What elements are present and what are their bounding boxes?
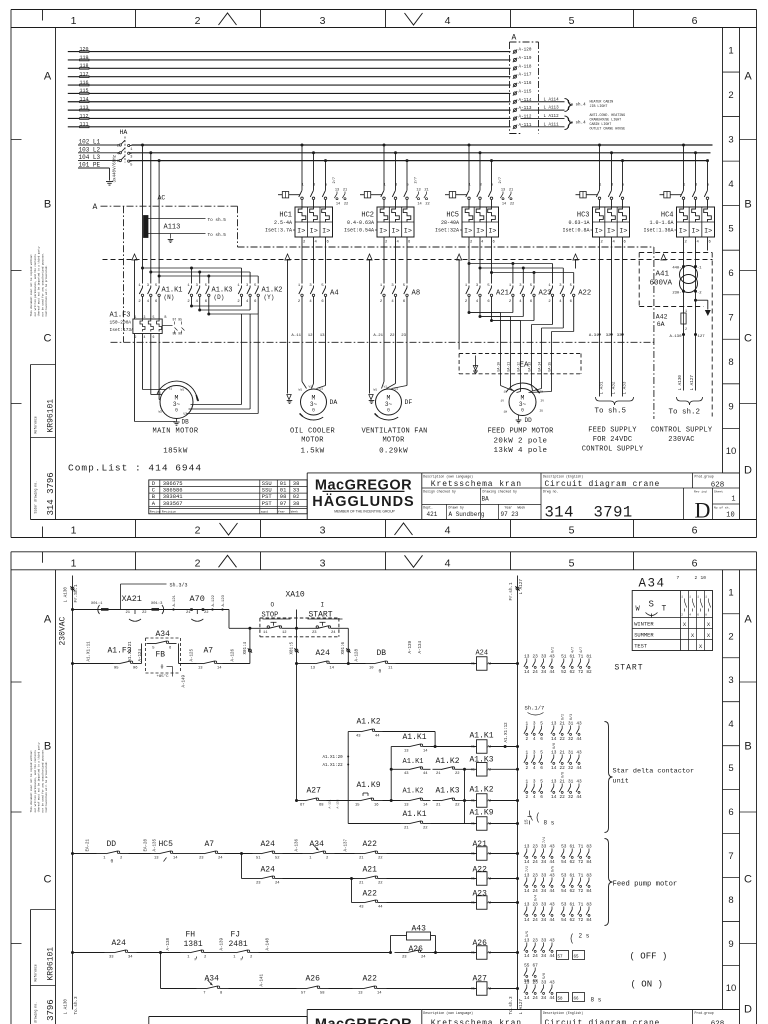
svg-text:314 3796: 314 3796 xyxy=(46,999,56,1024)
svg-text:14: 14 xyxy=(524,889,530,894)
svg-text:14: 14 xyxy=(524,996,530,1001)
bus L2 wire xyxy=(130,152,711,154)
svg-text:Iset:0.8A: Iset:0.8A xyxy=(562,228,589,234)
svg-text:To sh.4: To sh.4 xyxy=(568,121,586,126)
svg-text:I>: I> xyxy=(619,228,627,236)
revision table xyxy=(149,480,307,514)
svg-text:Kretsschema kran: Kretsschema kran xyxy=(431,480,522,489)
svg-text:I>: I> xyxy=(464,228,472,236)
svg-text:23: 23 xyxy=(256,881,261,885)
svg-text:C: C xyxy=(44,333,52,345)
svg-text:127: 127 xyxy=(698,335,706,339)
svg-text:Year: Year xyxy=(278,510,285,513)
svg-text:54: 54 xyxy=(561,918,567,923)
svg-text:1381: 1381 xyxy=(184,940,203,949)
svg-text:(D): (D) xyxy=(214,294,225,301)
svg-text:24: 24 xyxy=(331,631,336,635)
svg-text:Feed pump motor: Feed pump motor xyxy=(613,881,678,889)
svg-text:21: 21 xyxy=(359,881,364,885)
svg-text:A-116: A-116 xyxy=(519,81,532,86)
svg-text:Reference: Reference xyxy=(34,964,38,981)
svg-text:Description (own Language): Description (own Language) xyxy=(423,1011,473,1015)
svg-text:thereof must not be imparted t: thereof must not be imparted to a third … xyxy=(37,742,41,812)
feed supply wires to sh.5 xyxy=(599,237,601,397)
svg-text:U1: U1 xyxy=(320,388,324,391)
svg-text:24: 24 xyxy=(533,860,539,865)
svg-text:Circuit diagram crane: Circuit diagram crane xyxy=(545,480,661,489)
svg-text:MOTOR: MOTOR xyxy=(382,437,405,445)
PE wire to DD xyxy=(457,254,462,260)
svg-text:6: 6 xyxy=(728,807,733,818)
svg-text:A1.K2: A1.K2 xyxy=(436,757,460,766)
control supply to sh.2 xyxy=(677,397,703,405)
svg-text:A-136: A-136 xyxy=(296,838,300,851)
svg-text:TEST: TEST xyxy=(634,644,648,650)
svg-text:appd: appd xyxy=(261,509,268,513)
svg-text:6/2: 6/2 xyxy=(550,647,555,653)
svg-text:Contravention will be prosecut: Contravention will be prosecuted. xyxy=(44,265,48,316)
svg-text:7/4: 7/4 xyxy=(542,837,547,843)
svg-text:10: 10 xyxy=(726,512,734,520)
svg-text:34: 34 xyxy=(128,955,133,959)
svg-text:67: 67 xyxy=(300,803,305,807)
svg-text:3: 3 xyxy=(320,525,326,537)
svg-text:Rev ind: Rev ind xyxy=(694,490,707,494)
svg-text:57: 57 xyxy=(301,991,306,995)
svg-text:U2: U2 xyxy=(184,413,188,416)
svg-text:A34: A34 xyxy=(639,577,666,591)
svg-text:A-11: A-11 xyxy=(291,334,301,338)
svg-text:2W: 2W xyxy=(540,391,544,394)
svg-text:2: 2 xyxy=(195,15,201,27)
svg-text:12: 12 xyxy=(308,334,313,338)
svg-text:8/3: 8/3 xyxy=(569,714,574,720)
svg-text:15: 15 xyxy=(355,803,360,807)
svg-text:STOP: STOP xyxy=(262,612,279,620)
svg-text:72: 72 xyxy=(578,860,584,865)
svg-text:4: 4 xyxy=(144,335,146,339)
svg-text:A-31: A-31 xyxy=(589,334,599,338)
svg-text:4: 4 xyxy=(445,15,451,27)
svg-text:34: 34 xyxy=(541,954,547,959)
svg-text:24: 24 xyxy=(533,954,539,959)
svg-text:23: 23 xyxy=(402,955,407,959)
svg-text:22: 22 xyxy=(455,803,460,807)
svg-text:A: A xyxy=(744,614,752,626)
svg-text:A24: A24 xyxy=(316,649,331,658)
svg-text:MOTOR: MOTOR xyxy=(301,437,324,445)
svg-text:230VAC: 230VAC xyxy=(668,436,694,444)
svg-text:W1: W1 xyxy=(181,389,185,392)
svg-text:A-139: A-139 xyxy=(221,937,225,950)
svg-text:X01:1: X01:1 xyxy=(91,602,103,606)
wire risers xyxy=(249,628,251,663)
svg-text:A1: A1 xyxy=(471,745,475,749)
MacGREGOR HAGGLUNDS logo xyxy=(307,472,422,474)
svg-text:OIL COOLER: OIL COOLER xyxy=(290,428,336,436)
svg-text:14: 14 xyxy=(551,766,557,771)
svg-text:21: 21 xyxy=(126,611,131,615)
svg-text:I>: I> xyxy=(322,228,330,236)
svg-text:2: 2 xyxy=(728,90,733,101)
svg-text:7: 7 xyxy=(677,575,680,581)
title block text fields xyxy=(422,472,740,474)
wire rung R3 feed pump xyxy=(71,852,74,855)
svg-text:KR96101: KR96101 xyxy=(47,399,56,433)
svg-text:EA-14: EA-14 xyxy=(537,362,541,372)
svg-text:B: B xyxy=(44,199,51,211)
svg-text:A-139: A-139 xyxy=(409,640,413,653)
svg-text:1: 1 xyxy=(728,587,733,598)
svg-text:A4: A4 xyxy=(330,290,339,298)
svg-text:34: 34 xyxy=(541,889,547,894)
svg-text:34: 34 xyxy=(541,918,547,923)
svg-text:Prod.group: Prod.group xyxy=(695,1011,714,1015)
svg-text:82: 82 xyxy=(586,670,592,675)
svg-text:1: 1 xyxy=(728,45,733,56)
brace feed pump motor xyxy=(605,839,613,926)
title block text fields xyxy=(422,1009,740,1011)
svg-text:6/8: 6/8 xyxy=(552,743,557,749)
svg-text:22: 22 xyxy=(560,795,566,800)
svg-text:23: 23 xyxy=(312,631,317,635)
svg-text:101 PE: 101 PE xyxy=(79,162,101,169)
svg-text:8 s: 8 s xyxy=(544,820,555,827)
svg-text:A1: A1 xyxy=(471,951,475,955)
svg-text:This document must not be copi: This document must not be copied without xyxy=(29,750,33,813)
svg-text:EA-11: EA-11 xyxy=(506,362,510,372)
neutral branch arrow xyxy=(694,299,697,302)
svg-text:14: 14 xyxy=(173,856,178,860)
svg-text:A-124: A-124 xyxy=(139,648,143,661)
svg-text:MAIN MOTOR: MAIN MOTOR xyxy=(152,428,198,436)
svg-text:This document must not be copi: This document must not be copied without xyxy=(29,254,33,317)
svg-text:X01:5: X01:5 xyxy=(291,641,295,654)
svg-text:OUTLET CRANE HOUSE: OUTLET CRANE HOUSE xyxy=(590,127,626,131)
svg-text:44: 44 xyxy=(378,905,383,909)
main motor feeder wires xyxy=(141,144,144,147)
svg-text:B: B xyxy=(744,741,751,753)
svg-text:33: 33 xyxy=(109,955,114,959)
svg-text:Comp.List : 414 6944: Comp.List : 414 6944 xyxy=(68,463,202,474)
reference box KR96101 xyxy=(30,910,32,1024)
breaker HC5 xyxy=(468,144,471,147)
svg-text:To sh.5: To sh.5 xyxy=(208,233,227,238)
svg-text:14: 14 xyxy=(377,991,382,995)
svg-text:A22: A22 xyxy=(578,290,591,298)
svg-text:44: 44 xyxy=(549,996,555,1001)
svg-text:I>: I> xyxy=(704,228,712,236)
bus L3 wire xyxy=(130,160,709,162)
svg-text:B: B xyxy=(165,315,167,319)
svg-text:34: 34 xyxy=(541,996,547,1001)
svg-text:2: 2 xyxy=(695,575,698,581)
svg-text:A: A xyxy=(512,34,517,43)
svg-text:HC3: HC3 xyxy=(577,212,590,220)
svg-text:A1.K2: A1.K2 xyxy=(357,718,381,727)
svg-text:A: A xyxy=(93,203,98,212)
svg-text:No of sh.: No of sh. xyxy=(714,506,730,510)
svg-text:A1.X1:21: A1.X1:21 xyxy=(129,641,133,662)
svg-text:FEED SUPPLY: FEED SUPPLY xyxy=(588,427,637,435)
svg-text:21: 21 xyxy=(359,856,364,860)
svg-text:84: 84 xyxy=(586,918,592,923)
svg-text:52: 52 xyxy=(561,670,567,675)
MacGREGOR HAGGLUNDS logo xyxy=(307,1009,422,1011)
svg-text:Iset:0.54A: Iset:0.54A xyxy=(344,228,374,234)
svg-text:14: 14 xyxy=(524,860,530,865)
svg-text:θ: θ xyxy=(379,669,382,675)
svg-text:CONTROL SUPPLY: CONTROL SUPPLY xyxy=(651,427,713,435)
svg-text:thereof must not be imparted t: thereof must not be imparted to a third … xyxy=(37,246,41,316)
svg-text:44: 44 xyxy=(549,670,555,675)
svg-text:97 23: 97 23 xyxy=(501,511,519,518)
svg-text:230VAC: 230VAC xyxy=(59,616,68,645)
svg-text:97: 97 xyxy=(280,500,287,507)
svg-text:CABIN LIGHT: CABIN LIGHT xyxy=(590,122,612,126)
svg-text:A-118: A-118 xyxy=(519,64,532,69)
control supply dashed box xyxy=(639,252,712,254)
svg-text:A1: A1 xyxy=(471,768,475,772)
svg-text:421: 421 xyxy=(427,511,438,518)
svg-text:A: A xyxy=(744,71,752,83)
svg-text:A1.K9: A1.K9 xyxy=(470,809,494,818)
svg-text:DF: DF xyxy=(405,399,413,406)
svg-text:51: 51 xyxy=(256,856,261,860)
svg-text:2/7: 2/7 xyxy=(332,177,337,183)
svg-text:A1.X1:12: A1.X1:12 xyxy=(505,722,509,743)
svg-text:1V: 1V xyxy=(501,400,505,403)
svg-text:0.63-1A: 0.63-1A xyxy=(568,220,589,226)
border frame xyxy=(11,9,757,11)
svg-text:72: 72 xyxy=(578,918,584,923)
stop button xyxy=(229,627,259,629)
svg-text:6: 6 xyxy=(540,766,543,771)
to sh.4 outputs xyxy=(565,99,573,112)
svg-text:θ: θ xyxy=(312,408,315,414)
svg-text:24: 24 xyxy=(533,670,539,675)
svg-text:102 L1: 102 L1 xyxy=(79,139,101,146)
svg-text:Iset:32A: Iset:32A xyxy=(435,228,459,234)
svg-text:5: 5 xyxy=(728,223,733,234)
svg-text:Prod.group: Prod.group xyxy=(695,474,714,478)
star-delta branch wires xyxy=(143,267,242,269)
svg-text:A-117: A-117 xyxy=(519,73,532,78)
svg-text:65: 65 xyxy=(574,956,580,960)
svg-text:A-126: A-126 xyxy=(232,648,236,661)
svg-text:A1.K2: A1.K2 xyxy=(403,788,424,796)
svg-text:Kretsschema kran: Kretsschema kran xyxy=(431,1019,522,1024)
svg-text:A1: A1 xyxy=(471,987,475,991)
svg-text:44: 44 xyxy=(423,772,428,776)
svg-text:8: 8 xyxy=(728,895,733,906)
svg-text:Year: Year xyxy=(505,505,513,509)
svg-text:1: 1 xyxy=(71,15,77,27)
svg-text:44: 44 xyxy=(549,860,555,865)
svg-text:A-122: A-122 xyxy=(212,594,216,606)
svg-text:24: 24 xyxy=(533,918,539,923)
svg-text:14: 14 xyxy=(524,670,530,675)
svg-text:V1: V1 xyxy=(309,386,313,389)
svg-text:A24: A24 xyxy=(261,840,276,849)
svg-text:C: C xyxy=(44,874,52,886)
svg-text:A-137: A-137 xyxy=(345,838,349,851)
svg-text:12: 12 xyxy=(282,631,287,635)
svg-text:9: 9 xyxy=(728,402,733,413)
svg-text:A-140: A-140 xyxy=(267,937,271,950)
svg-text:14: 14 xyxy=(217,666,222,670)
svg-text:2.5-4A: 2.5-4A xyxy=(274,220,292,226)
svg-text:3~: 3~ xyxy=(173,401,181,408)
svg-text:58: 58 xyxy=(558,998,564,1002)
star point wires xyxy=(192,305,242,307)
svg-text:6/8: 6/8 xyxy=(561,772,566,778)
svg-text:Sheet: Sheet xyxy=(714,490,723,494)
svg-text:62: 62 xyxy=(570,889,576,894)
svg-text:θ: θ xyxy=(387,408,390,414)
svg-text:44: 44 xyxy=(549,918,555,923)
svg-text:10: 10 xyxy=(701,575,707,581)
svg-text:Drwg no.: Drwg no. xyxy=(543,490,558,494)
svg-text:9: 9 xyxy=(728,939,733,950)
svg-text:22: 22 xyxy=(390,334,395,338)
svg-text:XA21: XA21 xyxy=(122,594,142,604)
svg-text:2V: 2V xyxy=(541,400,545,403)
svg-text:38: 38 xyxy=(293,500,300,507)
svg-text:5: 5 xyxy=(569,525,575,537)
wire rung XA21-A70 xyxy=(71,608,74,611)
svg-text:44: 44 xyxy=(549,954,555,959)
svg-text:( ON ): ( ON ) xyxy=(631,980,663,990)
svg-text:B: B xyxy=(744,199,751,211)
svg-text:Drawing checked by: Drawing checked by xyxy=(483,490,518,494)
svg-text:4: 4 xyxy=(445,525,451,537)
svg-text:A34: A34 xyxy=(205,975,220,984)
breaker HC1 xyxy=(301,144,304,147)
svg-text:EA-13: EA-13 xyxy=(527,362,531,372)
svg-text:1.0-1.6A: 1.0-1.6A xyxy=(649,220,673,226)
svg-text:HC4: HC4 xyxy=(661,212,674,220)
contactor A4 contacts xyxy=(301,237,303,284)
svg-text:X01:3: X01:3 xyxy=(151,602,163,606)
contact A26 23-24 xyxy=(395,952,408,954)
svg-text:A1: A1 xyxy=(471,662,475,666)
breaker HC2 xyxy=(383,144,386,147)
svg-text:0.29kW: 0.29kW xyxy=(379,448,408,456)
svg-text:DA: DA xyxy=(330,399,338,406)
svg-text:24: 24 xyxy=(533,996,539,1001)
svg-text:62: 62 xyxy=(570,918,576,923)
svg-text:Circuit diagram crane: Circuit diagram crane xyxy=(545,1019,661,1024)
svg-text:54: 54 xyxy=(561,860,567,865)
svg-text:W2: W2 xyxy=(159,411,163,414)
svg-text:22: 22 xyxy=(378,881,383,885)
svg-text:A1.K1: A1.K1 xyxy=(403,733,427,742)
svg-text:A26: A26 xyxy=(306,975,321,984)
svg-text:43: 43 xyxy=(356,734,361,738)
svg-text:L A31: L A31 xyxy=(599,381,604,394)
contactor A21 contacts xyxy=(468,237,470,284)
svg-text:L A33: L A33 xyxy=(622,381,627,394)
svg-text:A1.K1: A1.K1 xyxy=(403,758,424,766)
svg-text:Drawn by: Drawn by xyxy=(449,505,464,509)
svg-text:A-123: A-123 xyxy=(222,594,226,606)
svg-text:nor be used for any unauthoriz: nor be used for any unauthorized purpose… xyxy=(40,253,44,317)
svg-text:84: 84 xyxy=(586,860,592,865)
svg-text:3: 3 xyxy=(130,156,132,160)
svg-text:185kW: 185kW xyxy=(163,448,188,456)
svg-text:44: 44 xyxy=(549,889,555,894)
svg-text:Revision: Revision xyxy=(162,509,177,513)
svg-text:13kW 4 pole: 13kW 4 pole xyxy=(494,447,548,455)
svg-text:0.4-0.63A: 0.4-0.63A xyxy=(347,220,374,226)
svg-text:Week: Week xyxy=(291,509,298,513)
svg-text:A42: A42 xyxy=(656,314,668,321)
svg-text:START: START xyxy=(615,664,644,673)
main motor DB xyxy=(142,334,144,390)
svg-text:A113: A113 xyxy=(164,224,181,232)
svg-text:96: 96 xyxy=(133,666,138,670)
svg-text:A41: A41 xyxy=(656,271,670,279)
svg-text:MacGREGOR: MacGREGOR xyxy=(315,1017,412,1024)
svg-text:13: 13 xyxy=(154,856,159,860)
svg-text:28-40A: 28-40A xyxy=(441,220,459,226)
terminal box EA (dashed) xyxy=(459,353,581,355)
wire 104 L3 xyxy=(78,160,118,162)
brace star delta contactor unit xyxy=(605,722,613,833)
svg-text:11: 11 xyxy=(263,631,268,635)
svg-text:A24: A24 xyxy=(475,649,488,657)
svg-text:I>: I> xyxy=(310,228,318,236)
svg-text:L A127: L A127 xyxy=(519,579,524,595)
svg-text:3x440V/60Hz: 3x440V/60Hz xyxy=(113,154,118,182)
wire rung R7 xyxy=(160,953,162,989)
svg-text:32: 32 xyxy=(568,795,574,800)
svg-text:DB: DB xyxy=(377,649,387,658)
svg-text:22: 22 xyxy=(378,856,383,860)
svg-text:A8: A8 xyxy=(412,290,421,298)
wire rung R2 control xyxy=(71,662,74,665)
svg-text:I>: I> xyxy=(404,228,412,236)
svg-text:4: 4 xyxy=(728,719,733,730)
svg-text:21: 21 xyxy=(436,803,441,807)
svg-text:2/7: 2/7 xyxy=(414,177,419,183)
svg-text:U1: U1 xyxy=(395,388,399,391)
svg-text:2: 2 xyxy=(685,328,687,332)
svg-text:10: 10 xyxy=(369,666,374,670)
svg-text:7/2: 7/2 xyxy=(525,866,530,872)
svg-text:34: 34 xyxy=(541,670,547,675)
svg-text:DD: DD xyxy=(525,417,533,424)
svg-text:10: 10 xyxy=(726,983,737,994)
svg-text:72: 72 xyxy=(578,889,584,894)
svg-text:5: 5 xyxy=(569,15,575,27)
border frame xyxy=(11,551,757,553)
svg-text:A-128: A-128 xyxy=(356,648,360,661)
svg-text:5: 5 xyxy=(569,557,575,569)
wire 102 L1 xyxy=(78,144,118,146)
svg-text:7: 7 xyxy=(728,313,733,324)
resistor A43 bypass xyxy=(389,951,392,954)
svg-text:L A32: L A32 xyxy=(611,381,616,394)
svg-text:I>: I> xyxy=(391,228,399,236)
svg-text:L A127: L A127 xyxy=(690,375,695,391)
svg-text:our written permission, and th: our written permission, and the contents xyxy=(33,750,37,813)
svg-text:3: 3 xyxy=(728,675,733,686)
svg-text:1: 1 xyxy=(135,315,137,319)
svg-text:24: 24 xyxy=(218,856,223,860)
svg-text:13: 13 xyxy=(198,666,203,670)
